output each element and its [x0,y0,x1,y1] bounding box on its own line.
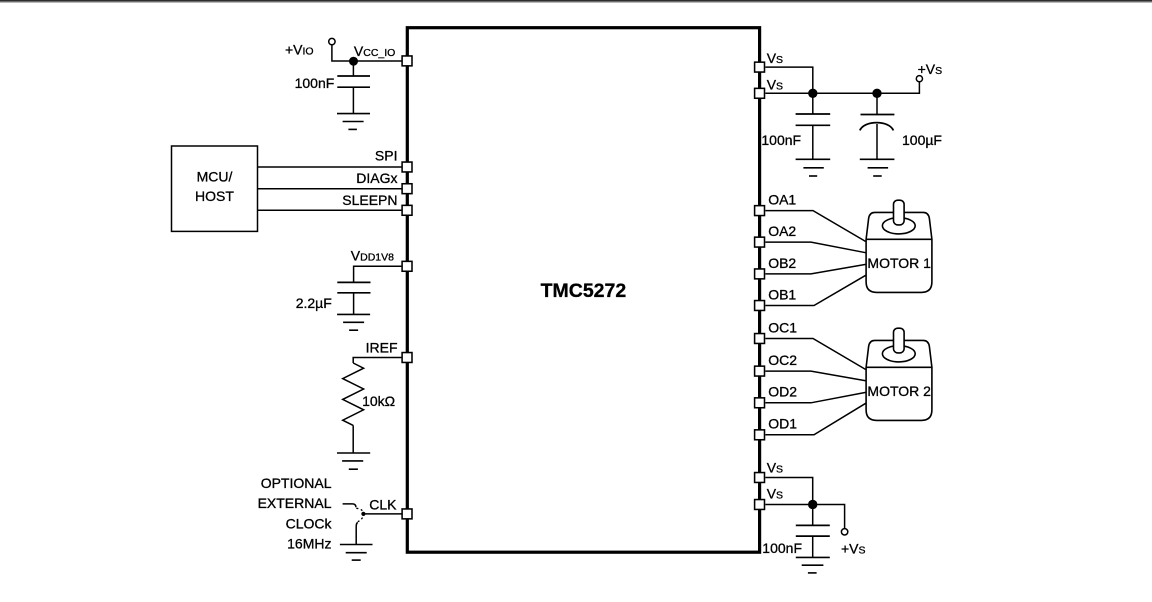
motor M2 body [866,328,932,420]
svg-text:MOTOR 1: MOTOR 1 [867,255,931,271]
svg-text:+VS: +VS [918,61,943,77]
pin DIAGx [402,184,412,194]
svg-text:OB1: OB1 [768,286,796,302]
capacitor C2 2.2uF [337,282,370,292]
pin VDD1V8 [402,261,412,271]
svg-text:2.2µF: 2.2µF [296,295,332,311]
pin OD1 [755,430,765,440]
pin OB2 [755,269,765,279]
right IC pins [755,62,765,509]
resistor R1 10kOhm zigzag [343,363,364,425]
wire SLEEPN [258,209,402,211]
wire VDD1V8 pin to capacitor C2 [354,266,402,282]
motor M1 body [866,200,932,292]
ground below switch [340,545,373,561]
wire C3 to ground [812,125,814,159]
svg-text:CLOCk: CLOCk [286,515,333,531]
pin OB1 [755,301,765,311]
wire OC1 to motor 2 [765,339,865,370]
wire C2 to ground [353,293,355,315]
pin SPI [402,162,412,172]
node junction rail / C4 [872,89,881,98]
svg-text:IREF: IREF [366,340,398,356]
svg-text:DIAGx: DIAGx [356,170,397,186]
pin OA1 [755,206,765,216]
pin VS (bottom 1) [755,473,765,483]
motor M1 face ellipse [882,218,915,234]
terminal +VS open circle (top) [916,76,922,82]
svg-text:+VS: +VS [841,541,866,557]
ground below C1 [337,114,370,130]
ground below C5 [796,557,830,573]
wire +VIO terminal drop to VCC_IO [332,45,402,61]
pin OC1 [755,334,765,344]
pin VS (bottom 2) [755,500,765,510]
svg-text:OA1: OA1 [768,192,796,208]
svg-text:VS: VS [767,460,783,476]
pin OC2 [755,366,765,376]
wire OD2 to motor 2 [765,392,865,402]
wire C5 to ground [812,536,814,557]
svg-text:HOST: HOST [195,188,234,204]
svg-text:EXTERNAL: EXTERNAL [258,495,332,511]
wire VS pin2 supply rail to +VS [765,82,919,93]
wire OA1 to motor 1 [765,211,865,242]
pin OD2 [755,398,765,408]
svg-text:OC2: OC2 [768,352,797,368]
wire VS pin4 to +VS terminal (bottom) [765,505,844,529]
svg-text:VCC_IO: VCC_IO [354,43,395,59]
svg-text:OA2: OA2 [768,223,796,239]
node junction bottom rail / C5 [808,500,817,509]
svg-text:CLK: CLK [369,496,397,512]
wire OD1 to motor 2 [765,403,865,435]
capacitor C1 100nF [337,76,370,87]
svg-text:16MHz: 16MHz [287,536,331,552]
svg-text:TMC5272: TMC5272 [541,280,627,302]
capacitor C4 100uF polarized [860,115,895,131]
node junction rail / C3 [808,89,817,98]
wire switch ground contact [356,522,358,544]
switch SW1 common node dot [361,512,365,516]
terminal +VS open circle (bottom) [841,529,847,535]
motor M2 face ellipse [882,346,915,362]
wire C1 to ground [352,87,354,113]
IC U1 TMC5272 body [407,28,759,553]
svg-text:MOTOR 2: MOTOR 2 [867,383,931,399]
svg-text:100nF: 100nF [762,540,802,556]
left IC pins [402,56,412,519]
pin VS (top 2) [755,88,765,98]
svg-text:MCU/: MCU/ [197,169,233,185]
svg-text:VDD1V8: VDD1V8 [351,248,394,264]
wire OC2 to motor 2 [765,371,865,381]
svg-text:VS: VS [767,486,783,502]
capacitor C5 100nF [796,525,830,536]
pin CLK [402,509,412,519]
svg-text:OC1: OC1 [768,319,797,335]
wire OB1 to motor 1 [765,275,865,305]
wire switch common to CLK pin [363,513,401,515]
pin VS (top 1) [755,62,765,72]
terminal +VIO open circle [329,38,335,44]
wire C4 to ground [876,124,878,159]
capacitor C3 100nF [796,114,831,125]
svg-text:SPI: SPI [375,147,398,163]
ground below C4 [860,159,895,176]
pin IREF [402,353,412,363]
switch SW1 external clock contact [343,504,356,507]
svg-text:+VIO: +VIO [285,42,314,58]
motor M1 shaft [894,200,905,225]
ground below R1 [337,453,370,469]
pin OA2 [755,237,765,247]
pin VCC_IO [402,56,412,66]
node junction on VCC_IO net [349,57,358,66]
svg-text:100nF: 100nF [295,75,335,91]
svg-text:VS: VS [767,77,783,93]
pin SLEEPN [402,205,412,215]
wire R1 to ground [352,425,354,453]
svg-text:OPTIONAL: OPTIONAL [261,475,332,491]
switch SW1 dashed throw arc [356,508,363,521]
wire OB2 to motor 1 [765,264,865,274]
wire junction to capacitor C1 [352,61,354,76]
wire OA2 to motor 1 [765,242,865,253]
svg-text:VS: VS [767,50,783,66]
wire rail to capacitor C4 [876,93,878,114]
svg-text:100nF: 100nF [761,132,801,148]
wire IREF pin to resistor R1 [353,358,401,364]
svg-text:100µF: 100µF [902,132,942,148]
svg-text:10kΩ: 10kΩ [362,393,395,409]
svg-text:OB2: OB2 [768,255,796,271]
wire VS pin1 to supply rail [765,67,813,93]
ground below C2 [337,314,370,330]
page top rule [0,0,1152,2]
wire rail to capacitor C5 [812,505,814,526]
wire rail to capacitor C3 [812,93,814,114]
svg-text:SLEEPN: SLEEPN [342,192,397,208]
MCU/HOST box [172,146,258,231]
motor M2 shaft [894,328,905,353]
svg-text:OD1: OD1 [768,416,797,432]
svg-text:OD2: OD2 [768,384,797,400]
ground below C3 [796,159,831,176]
wire VS pin3 to bottom rail [765,478,812,505]
wire DIAGx [258,188,402,190]
wire SPI bus [258,166,402,168]
